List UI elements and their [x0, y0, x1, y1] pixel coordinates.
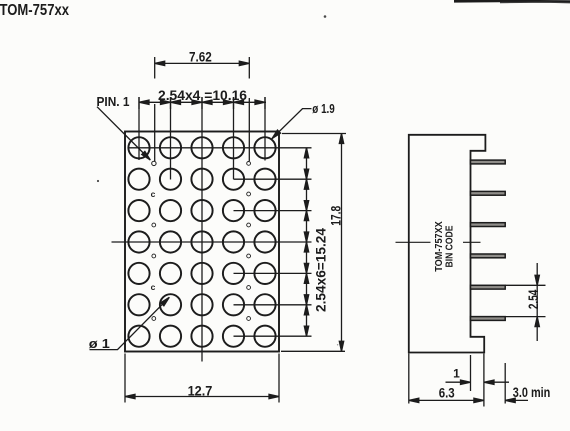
svg-text:TOM-757xx: TOM-757xx: [0, 2, 69, 19]
svg-text:7.62: 7.62: [189, 49, 212, 65]
7.62 left extension line: [154, 57, 156, 79]
row 5 extension line: [234, 272, 312, 274]
svg-text:1: 1: [453, 367, 460, 381]
LED dot matrix 5x7 circles: [128, 137, 275, 347]
dimension 3.0 min pin length: [505, 398, 528, 402]
small position marks between rows: [152, 162, 251, 321]
svg-text:2.54x6=15.24: 2.54x6=15.24: [313, 228, 329, 312]
dimension 17.8: [281, 134, 346, 352]
dimension 2.54 pin pitch: [505, 263, 545, 341]
row 7 extension line: [234, 335, 312, 337]
svg-text:c: c: [151, 189, 156, 199]
pin 2: [471, 191, 506, 195]
svg-text:PIN. 1: PIN. 1: [97, 94, 130, 109]
dimension 7.62: [155, 61, 250, 65]
row 4 center line: [112, 241, 312, 243]
dimension 1 (shoulder step): [446, 380, 510, 384]
dimension 12.7: [125, 354, 279, 403]
svg-text:2.54: 2.54: [525, 289, 541, 309]
pin1 position mark: [152, 161, 156, 165]
row 1 extension line: [129, 147, 312, 149]
svg-text:2.54x4 =10.16: 2.54x4 =10.16: [158, 87, 247, 103]
svg-text:3.0 min: 3.0 min: [513, 384, 551, 400]
svg-text:17.8: 17.8: [327, 206, 343, 226]
svg-text:c: c: [151, 282, 156, 292]
side view bottom extension lines: [409, 354, 505, 407]
column 1 extension line: [138, 97, 140, 160]
pin 6: [471, 317, 506, 321]
column 3 center line: [201, 97, 203, 362]
svg-text:12.7: 12.7: [188, 382, 213, 398]
side view package outline: [409, 135, 486, 353]
column 4 extension line: [233, 97, 235, 179]
column 5 extension line: [264, 97, 266, 161]
svg-text:ø 1.9: ø 1.9: [312, 102, 335, 116]
column 2 extension line: [170, 97, 172, 180]
row 2 extension line: [234, 178, 312, 180]
pin 3: [471, 223, 506, 227]
pin 5: [471, 285, 506, 289]
svg-text:ø 1: ø 1: [89, 336, 110, 351]
dimension 2.54x6=15.24: [304, 148, 308, 336]
row 6 extension line: [234, 304, 312, 306]
row 3 extension line: [234, 210, 312, 212]
side view center line ticks: [396, 241, 481, 243]
dimension 2.54x4=10.16: [139, 97, 266, 109]
svg-text:BIN CODE: BIN CODE: [444, 225, 455, 267]
scan specks: [97, 15, 338, 345]
svg-text:6.3: 6.3: [439, 385, 455, 401]
scan streak top edge: [454, 0, 570, 3]
pin 1: [471, 160, 506, 164]
front view package outline: [125, 132, 279, 352]
pin 4: [471, 254, 506, 258]
dimension 6.3: [409, 398, 484, 402]
7.62 right extension line: [248, 57, 250, 79]
